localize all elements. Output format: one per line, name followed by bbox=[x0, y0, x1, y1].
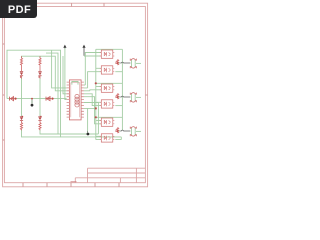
diode D4 node line right bbox=[46, 97, 51, 101]
diode D1 upper chain1 bbox=[20, 71, 23, 77]
wire node line bbox=[7, 98, 67, 100]
fuse JP3 stadium bbox=[130, 127, 136, 137]
connector J1 inner green bracket bbox=[72, 82, 78, 85]
wire rail C chain tops to pin4 bbox=[22, 56, 67, 91]
fuse JP2 stadium bbox=[130, 93, 136, 103]
wire oval1 link green part bbox=[118, 62, 121, 64]
junction dots bus rails bbox=[95, 82, 97, 84]
wire chain2 lower bottom loop bbox=[40, 130, 58, 134]
wire chain2 upper to node bbox=[39, 78, 41, 99]
wire conn pin7 to bottom rail a bbox=[84, 103, 99, 135]
frame row tick marks right bbox=[145, 94, 147, 96]
wire pair3 top rail bbox=[96, 116, 123, 118]
wire oval2 out bbox=[136, 96, 141, 98]
supply arrow VCC2 bbox=[82, 45, 85, 56]
fuse JP1 stadium bbox=[130, 59, 136, 69]
wire bus to U2 pin1 bbox=[96, 67, 102, 69]
red stub oval1 link bbox=[115, 62, 118, 64]
wire staircase v1 to pin2 bbox=[52, 50, 67, 88]
wire oval3 link green part bbox=[118, 130, 121, 132]
junction dot R7 bbox=[117, 130, 119, 132]
wire oval1 out bbox=[136, 62, 141, 64]
connector J1 body bbox=[69, 80, 81, 120]
junction dot node left bbox=[14, 98, 16, 100]
title block bbox=[75, 168, 145, 183]
junction dot R6 bbox=[117, 96, 119, 98]
connector J1 coil circles bbox=[75, 94, 79, 107]
dark link wire with hop to JP2 bbox=[120, 95, 130, 98]
wire conn pin9 to ground2 bbox=[84, 108, 96, 130]
wire U6 pin2 stub bbox=[96, 136, 102, 139]
PDF badge overlay bbox=[0, 0, 37, 18]
wire cascade U6 out bbox=[115, 137, 121, 140]
wire cascade U2 out bbox=[115, 71, 122, 73]
junction dot node right bbox=[51, 98, 53, 100]
wire pair1 top rail bbox=[96, 48, 123, 50]
wire conn pin4 to U4 pin2 bbox=[84, 94, 101, 106]
diode D2 upper chain2 bbox=[38, 71, 41, 77]
wire bus to U3 pin1 bbox=[96, 86, 102, 88]
supply arrow VCC1 bbox=[63, 45, 66, 49]
resistor R5 between U1 U2 bbox=[116, 60, 118, 66]
red stub oval3 link bbox=[115, 130, 118, 132]
diode D5 lower chain1 bbox=[20, 116, 23, 121]
wire conn pin5 to U5 pin2 bbox=[84, 97, 101, 124]
wire right long vertical bbox=[121, 49, 123, 130]
frame column tick marks top bbox=[72, 3, 104, 6]
title block small red text mark bbox=[71, 181, 77, 183]
junction dot R5 bbox=[117, 62, 119, 64]
optocoupler U2 bbox=[100, 66, 115, 74]
optocoupler U5 bbox=[100, 118, 115, 126]
ground GND2 bbox=[87, 131, 90, 136]
optocoupler U3 bbox=[100, 84, 115, 92]
resistor R7 between U5 U6 bbox=[116, 128, 118, 134]
red stub oval2 link bbox=[115, 96, 118, 98]
wire cascade U4 out bbox=[115, 105, 122, 107]
wire rail A top with left drop and bottom rail b bbox=[7, 50, 121, 137]
sheet frame inner border bbox=[4, 7, 145, 183]
wire conn pin3 to U3 pin2 bbox=[84, 90, 101, 91]
resistor R2 upper chain2 bbox=[39, 56, 41, 71]
wire bus vertical bbox=[95, 49, 97, 136]
ground GND1 bbox=[31, 98, 34, 107]
wire conn pin1 to U1 pin2 bbox=[84, 53, 101, 86]
junction dot bus pin9 bbox=[95, 107, 97, 109]
resistor R6 between U3 U4 bbox=[116, 94, 118, 100]
dark link wire with hop to JP3 bbox=[120, 129, 130, 132]
frame row tick marks left bbox=[3, 44, 5, 140]
wire chain2 node to diode bbox=[39, 99, 41, 117]
wire supply1 stem to pin7 bbox=[65, 48, 67, 100]
resistor R1 upper chain1 bbox=[20, 56, 22, 71]
wire bus to U4 pin1 bbox=[96, 101, 102, 103]
frame column tick marks bottom bbox=[23, 183, 119, 187]
resistor R3 lower chain1 bbox=[20, 121, 22, 130]
optocoupler U1 bbox=[100, 50, 115, 58]
wire supply2 to opto U1 pin1 bbox=[84, 55, 101, 57]
sheet frame outer border bbox=[3, 3, 148, 187]
wire oval2 link green part bbox=[118, 96, 121, 98]
diode D3 node line left bbox=[10, 97, 14, 101]
wire bus to U6 pin1 bbox=[96, 135, 102, 137]
wire bus to U5 pin1 bbox=[96, 120, 102, 122]
optocoupler U4 bbox=[100, 100, 115, 108]
resistor R4 lower chain2 bbox=[39, 121, 41, 130]
wire rail B with bottom rail a bbox=[46, 53, 98, 134]
wire chain1 lower bottom loop bbox=[22, 130, 61, 137]
connector J1 left pins bbox=[67, 82, 70, 117]
wire oval3 out bbox=[136, 130, 141, 132]
optocoupler U6 bbox=[100, 134, 115, 142]
wire chain2 top stub bbox=[39, 56, 41, 58]
diode D6 lower chain2 bbox=[38, 116, 41, 121]
wire conn pin2 to U2 pin2 bbox=[84, 72, 101, 88]
wire staircase v3 to pin5 bbox=[63, 56, 67, 94]
wire pair2 top rail bbox=[96, 82, 123, 84]
wire chain1 node to diode bbox=[21, 99, 23, 117]
connector J1 right pins bbox=[81, 82, 84, 117]
connector J1 inner top line bbox=[71, 83, 80, 118]
wire chain1 upper to node bbox=[21, 78, 23, 99]
dark link wire with hop to JP1 bbox=[120, 61, 130, 64]
